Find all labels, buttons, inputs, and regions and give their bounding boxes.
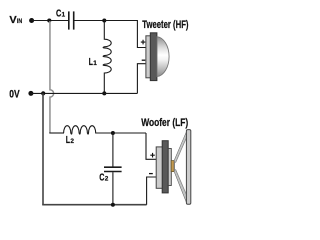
wire: tweeter - terminal back to 0V rail (137, 64, 146, 94)
junction dot: L1 bottom on 0V rail (102, 91, 106, 95)
woofer + pin label (150, 153, 155, 158)
wire: tweeter node to tweeter + terminal (104, 21, 146, 48)
wire: bottom return rail (42, 204, 146, 206)
svg-text:IN: IN (17, 18, 23, 25)
woofer LS2 spacer plate (168, 149, 171, 186)
svg-text:Tweeter (HF): Tweeter (HF) (142, 19, 188, 31)
tweeter LS1 magnet bar (150, 33, 157, 81)
wire: gray feed from Vin tap down to L2 (hops over 0V rail) (50, 21, 54, 133)
tweeter LS1 dome diaphragm (157, 37, 169, 77)
svg-text:0V: 0V (9, 89, 19, 101)
tweeter LS1 rear plate (146, 36, 157, 78)
woofer LS2 rear plate (156, 147, 165, 188)
woofer LS2 cone (174, 132, 186, 203)
inductor L2 (horizontal coil, feed to woofer node) (64, 126, 113, 134)
tweeter - pin label (142, 59, 146, 61)
capacitor C2 bottom plate (104, 171, 122, 173)
wire: 0V drop down left side (42, 93, 44, 204)
svg-text:2: 2 (70, 138, 74, 145)
wire: C2 bottom plate down to bottom rail (112, 172, 114, 205)
wire: Vin terminal to C1 left plate (32, 20, 68, 22)
svg-text:V: V (9, 15, 16, 26)
woofer LS2 cone bottom shading wedge (174, 169, 186, 202)
wire: feed corner to L2 left end (49, 132, 64, 134)
capacitor C1 left plate (68, 11, 70, 29)
svg-text:1: 1 (62, 11, 66, 18)
wire: woofer node down to C2 top plate (112, 133, 114, 167)
wire: L2 right end to woofer feed corner (96, 132, 147, 134)
svg-text:2: 2 (105, 176, 109, 183)
capacitor C1 right plate (73, 11, 75, 29)
terminal dot 0V (28, 91, 33, 96)
inductor L1 (vertical coil, tweeter node to 0V rail) (103, 21, 111, 94)
woofer LS2 magnet bar (162, 141, 168, 193)
junction dot: woofer node (L2 / C2 / woofer +) (111, 131, 115, 135)
capacitor C2 top plate (104, 166, 122, 168)
woofer LS2 cone top shading wedge (174, 132, 186, 163)
wire: C1 right plate to tweeter node (75, 20, 138, 22)
junction dot: 0V drop to woofer return (41, 91, 45, 95)
woofer LS2 cone inner lip line top (176, 137, 187, 162)
wire: 0V rail (31, 92, 137, 94)
woofer LS2 rim / surround (186, 130, 190, 205)
wire: woofer feed corner down to woofer + terminal (146, 133, 157, 159)
junction dot: Vin feed tap (47, 18, 51, 22)
svg-text:Woofer (LF): Woofer (LF) (141, 117, 188, 129)
woofer LS2 voice coil (tan) (171, 161, 174, 172)
tweeter + pin label (141, 40, 146, 45)
woofer LS2 cone inner lip line bottom (176, 169, 187, 195)
woofer - pin label (149, 173, 153, 175)
terminal dot Vin (29, 18, 34, 23)
wire: woofer - terminal down to bottom rail (147, 177, 157, 205)
junction dot: C2 bottom on return rail (111, 203, 115, 207)
junction dot: tweeter node (C1 / L1 / tweeter +) (102, 19, 106, 23)
svg-text:1: 1 (93, 60, 97, 67)
